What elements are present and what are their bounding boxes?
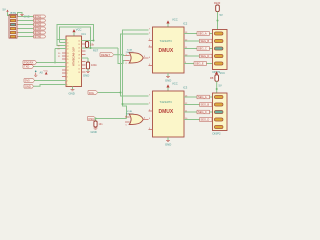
svg-text:12: 12 [67, 48, 69, 50]
svg-text:12: 12 [78, 68, 80, 70]
svg-text:VCC: VCC [172, 82, 178, 86]
wire IC2 outputs [184, 34, 213, 64]
node label BTN2 [34, 19, 46, 23]
wire bus vertical netA [123, 30, 149, 105]
svg-text:5V: 5V [3, 8, 6, 12]
junction node [54, 62, 56, 64]
op-amp U1: microcontroller IC1 body [66, 36, 82, 87]
logic gate IC4A (AND gate) [123, 53, 149, 65]
pin numbers IC2 right [185, 32, 188, 64]
pin numbers IC1 right [78, 40, 80, 74]
power VCC P4 (above IC3) [166, 82, 177, 92]
ground GND4 (below IC3) [165, 137, 171, 147]
svg-text:IC3: IC3 [183, 86, 188, 90]
pin numbers IC2 left [149, 28, 151, 66]
svg-text:DMUX: DMUX [159, 48, 174, 54]
node label TXD flag [23, 65, 33, 69]
svg-text:28: 28 [67, 70, 69, 72]
power AVCC mark [44, 71, 49, 75]
wire netA to IC2 pin1 [123, 29, 149, 31]
wire netB to IC2 pin2 [121, 33, 149, 35]
svg-text:GND: GND [69, 92, 75, 96]
capacitor C1 (below pin 19) [82, 58, 98, 78]
svg-text:SEG_D: SEG_D [201, 54, 210, 58]
svg-text:GND: GND [165, 143, 171, 147]
svg-text:SEG_B: SEG_B [201, 103, 210, 107]
node label SEG_B [200, 39, 213, 43]
svg-text:BTN1: BTN1 [35, 16, 42, 19]
svg-text:OSC: OSC [88, 117, 94, 121]
node label BTN6 [34, 35, 46, 39]
svg-text:BTN6: BTN6 [35, 36, 42, 39]
node label RESET [93, 49, 114, 58]
resistor R7 (top right) [214, 1, 223, 30]
svg-text:SEG_E: SEG_E [195, 62, 204, 66]
wire bottom net [96, 118, 127, 120]
connector SV1 (button header) [9, 15, 19, 39]
node label BTN4 [34, 27, 46, 31]
ground GND2 (below IC1) [69, 87, 75, 96]
svg-text:10: 10 [67, 42, 69, 44]
svg-text:6: 6 [78, 61, 79, 63]
wire IC1 left pins wired [62, 40, 66, 85]
svg-text:SEG_A: SEG_A [198, 95, 207, 99]
svg-text:19: 19 [78, 58, 80, 60]
svg-text:R8: R8 [210, 76, 214, 80]
svg-text:18: 18 [78, 54, 80, 56]
svg-text:2: 2 [67, 73, 68, 75]
power VCC P2 (above IC1) [72, 28, 81, 37]
connector DISP1 [213, 30, 228, 75]
pin numbers IC3 left [149, 94, 151, 130]
svg-text:16: 16 [78, 47, 80, 49]
node label BTN5 [34, 31, 46, 35]
svg-text:VCC: VCC [44, 71, 49, 73]
power VCC P3 (above IC2) [166, 18, 177, 28]
node label BTN3 [34, 23, 46, 27]
node label GND flag [24, 84, 33, 88]
node label 5V0 flag [24, 79, 34, 83]
svg-text:74LS47N: 74LS47N [160, 100, 172, 104]
svg-text:SEG_D: SEG_D [201, 118, 210, 122]
node label DP flag [88, 91, 98, 95]
wire IC3 outputs [184, 97, 213, 120]
svg-text:15: 15 [78, 44, 80, 46]
svg-text:13: 13 [78, 72, 80, 74]
node label bottom flag [88, 117, 96, 121]
svg-text:5V: 5V [220, 13, 223, 17]
pin stubs IC1 right bare [82, 44, 86, 72]
wire RXD to IC1 [36, 62, 62, 64]
svg-text:14: 14 [78, 40, 80, 42]
junction node [90, 47, 92, 49]
wire GND flag to IC1 [33, 85, 62, 87]
ground GND3 (below IC2) [165, 73, 171, 83]
svg-text:VCC: VCC [76, 28, 82, 32]
svg-text:BTN2: BTN2 [35, 20, 42, 23]
node label RXD flag [23, 61, 36, 65]
svg-text:TXD: TXD [24, 65, 29, 69]
svg-text:DISP2: DISP2 [213, 132, 222, 136]
pin numbers IC1 left [67, 39, 69, 86]
svg-text:SEG_B: SEG_B [201, 39, 210, 43]
svg-text:11: 11 [67, 45, 69, 47]
junction node [93, 40, 95, 42]
svg-text:VCC: VCC [220, 71, 226, 75]
svg-text:PD0/RX: PD0/RX [24, 61, 34, 65]
node label SEG_D2 [200, 118, 213, 122]
capacitor C3 (to ground) [91, 119, 104, 135]
node label BTN1 [34, 15, 46, 19]
svg-text:SEG_A: SEG_A [198, 32, 207, 36]
wire TXD to IC1 [33, 66, 62, 68]
pin numbers IC3 right [185, 95, 188, 120]
logic gate IC4B (AND gate) [125, 114, 149, 126]
svg-text:17: 17 [78, 51, 80, 53]
node label SEG_C2 [197, 110, 210, 114]
svg-text:RESET: RESET [101, 53, 110, 57]
svg-text:11: 11 [78, 65, 80, 67]
svg-text:24: 24 [67, 56, 69, 58]
svg-text:SEG_C: SEG_C [198, 47, 207, 51]
svg-text:26: 26 [67, 62, 69, 64]
svg-text:R220: R220 [214, 1, 221, 5]
wire reset to bus [114, 54, 123, 56]
svg-text:5: 5 [67, 84, 68, 86]
svg-text:GND: GND [165, 79, 171, 83]
svg-text:10k: 10k [90, 42, 95, 46]
connector DISP2 [213, 93, 228, 136]
svg-text:9: 9 [67, 39, 68, 41]
wire bus vertical netB [121, 34, 149, 97]
power VCC P1 (top-left) [3, 8, 11, 16]
ground AGND mark [34, 71, 37, 77]
svg-text:5V0: 5V0 [25, 79, 30, 83]
svg-text:74LS47N: 74LS47N [160, 39, 172, 43]
node label SEG_B2 [200, 103, 213, 107]
node label SEG_A2 [197, 95, 210, 99]
wire btn rows [19, 17, 34, 37]
svg-text:GND: GND [25, 84, 31, 88]
svg-text:25: 25 [67, 59, 69, 61]
wire MCU top loop outer [57, 25, 94, 41]
svg-text:ATMEGA8-16P: ATMEGA8-16P [72, 47, 76, 66]
svg-text:DIG: DIG [89, 91, 94, 95]
wire pin PB7 [55, 43, 62, 63]
svg-text:DMUX: DMUX [159, 109, 174, 115]
op-amp U3: decoder IC3 body [153, 91, 185, 137]
svg-text:100n: 100n [91, 63, 97, 67]
pin stubs IC1 left bare [62, 53, 66, 77]
svg-text:IC2: IC2 [183, 22, 188, 26]
wire IC1 right pins wired [82, 41, 89, 59]
logic gate IC4B name [126, 111, 135, 116]
svg-text:4: 4 [67, 80, 68, 82]
svg-text:GND: GND [83, 74, 89, 78]
junction node [120, 92, 122, 94]
junction node [122, 103, 124, 105]
junction node [122, 54, 124, 56]
pin numbers IC1 outside left [58, 45, 62, 58]
svg-text:VCC: VCC [172, 18, 178, 22]
svg-text:BTN4: BTN4 [35, 28, 42, 31]
wire 5V0 to IC1 [34, 80, 62, 82]
wire DP to bus [98, 92, 121, 94]
svg-text:BTN5: BTN5 [35, 32, 42, 35]
logic gate IC4A name [126, 48, 135, 54]
svg-text:BTN3: BTN3 [35, 24, 42, 27]
svg-text:23: 23 [67, 53, 69, 55]
node label SEG_C [197, 47, 210, 51]
svg-text:IC1: IC1 [82, 32, 87, 36]
resistor R8 (bottom right) [210, 71, 225, 93]
node label SEG_D [200, 54, 213, 58]
svg-text:RST: RST [93, 49, 99, 53]
pin stubs IC2 left [149, 41, 153, 66]
junction node [95, 118, 97, 120]
wire xtal row [87, 47, 118, 49]
wire gate1 lower input net [118, 48, 125, 64]
svg-text:27: 27 [67, 66, 69, 68]
node label SEG_A [197, 32, 210, 36]
resistor R1 (right of IC1) [82, 41, 95, 49]
node label SEG_E [194, 62, 207, 66]
ground GND1 (top-left) [18, 13, 30, 19]
pin stubs IC3 left [149, 111, 153, 130]
svg-text:10n: 10n [99, 123, 104, 126]
wire pin PB6 [57, 40, 62, 46]
svg-text:3: 3 [67, 76, 68, 78]
wire netC lower [123, 104, 127, 119]
op-amp U2: decoder IC2 body [153, 27, 185, 73]
svg-text:SEG_C: SEG_C [198, 110, 207, 114]
wire MCU top loop inner [60, 27, 91, 48]
svg-text:5V: 5V [219, 84, 222, 88]
svg-text:GND: GND [91, 130, 97, 134]
